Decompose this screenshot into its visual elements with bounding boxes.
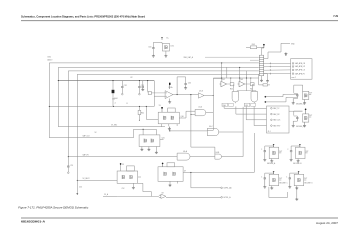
label C below x76 — [79, 187, 82, 189]
label R47 — [250, 88, 253, 90]
svg-text:SECURE_5V: SECURE_5V — [296, 104, 305, 106]
filter block Q — [292, 109, 313, 129]
IC3 pin stub2 — [177, 181, 179, 183]
svg-text:Q43: Q43 — [240, 79, 243, 81]
svg-text:OUT: OUT — [309, 93, 312, 95]
svg-text:5V_SEC2: 5V_SEC2 — [83, 178, 90, 180]
wire IC2 step join — [138, 183, 152, 196]
junction d4 — [239, 67, 240, 79]
IC3 top box — [167, 163, 175, 167]
resistor R40 series — [148, 81, 152, 95]
label J1 — [291, 77, 296, 79]
svg-text:C32: C32 — [124, 85, 127, 87]
IC1 bottom pin1 — [161, 124, 163, 127]
filter block D — [286, 171, 313, 189]
label B+ top — [167, 38, 169, 40]
transistor Q9 in IC3 — [164, 172, 167, 176]
label top right — [291, 43, 295, 45]
figure caption — [18, 206, 89, 210]
filter block C — [261, 171, 288, 189]
wire R48 — [259, 84, 270, 86]
ground below U1 — [168, 101, 171, 104]
AND gate G2 — [207, 128, 218, 135]
AND gate G4 — [195, 109, 206, 115]
wire bus L5 — [77, 74, 258, 180]
filter block A — [261, 144, 282, 165]
ground below U0 — [164, 55, 167, 58]
terminal circle UNFIL — [221, 187, 223, 189]
filter block Q feed — [289, 110, 303, 112]
resistor R41 hanging — [138, 106, 141, 120]
svg-text:U3 1: U3 1 — [170, 45, 174, 47]
label y180 — [83, 178, 90, 180]
wire Q5 to R46 — [227, 83, 231, 85]
svg-text:C52: C52 — [122, 188, 125, 190]
svg-text:OUT: OUT — [279, 151, 282, 153]
label J2 — [268, 131, 271, 133]
ground IC1 — [168, 127, 171, 130]
header page number — [333, 15, 338, 18]
svg-text:C30: C30 — [148, 46, 151, 48]
transistor Q8 in IC2 — [130, 175, 133, 179]
svg-text:vv: vv — [115, 103, 117, 105]
label C33 — [141, 85, 144, 87]
terminal dot R41 — [139, 120, 140, 121]
junction R40 — [147, 80, 148, 81]
label U8 — [162, 193, 164, 195]
wire U1-B out — [204, 95, 213, 97]
transistor Q6 — [238, 81, 245, 87]
wire Q6 to R47 — [245, 83, 251, 85]
connector J2 pins — [271, 107, 282, 127]
resistor R47 — [250, 83, 254, 86]
svg-text:Q42: Q42 — [222, 79, 225, 81]
capacitor C51 left — [67, 157, 69, 172]
junction U1 out — [177, 94, 178, 95]
filter block P — [292, 85, 313, 105]
wire Q5 junction drop — [229, 78, 232, 83]
terminal circle HPFIL — [221, 197, 223, 199]
label bus L1 mid — [184, 56, 194, 59]
junction x146 — [146, 106, 147, 107]
IC3 box — [158, 167, 183, 182]
junction C31 — [112, 80, 113, 81]
svg-text:UNFIL_AD: UNFIL_AD — [224, 187, 233, 190]
label box U5B — [244, 103, 255, 107]
wire drop d4 — [239, 67, 241, 81]
wire IC3 top stub — [162, 163, 164, 166]
svg-text:OUT: OUT — [304, 178, 307, 180]
wire bus L1 — [205, 56, 259, 58]
wire net y196 stub — [103, 195, 117, 197]
net arrow bottom x76 — [76, 180, 78, 195]
svg-text:R45: R45 — [252, 44, 255, 46]
label U2 on y80 — [130, 77, 132, 79]
label IC3 out — [184, 170, 186, 172]
wire drop d2 — [226, 67, 228, 78]
label Q5 — [222, 79, 225, 81]
IC4 box — [139, 135, 160, 147]
wire net y156 — [68, 156, 177, 158]
IC2 box — [117, 171, 138, 183]
NAND gate GA — [232, 88, 239, 103]
label HPFIL_A — [224, 196, 232, 199]
wire y130 to gate2 — [170, 130, 208, 132]
svg-text:SECURE_C: SECURE_C — [279, 182, 288, 184]
filter block P feeds — [286, 94, 298, 97]
T1 top stub — [262, 48, 264, 55]
T1 bottom right drop — [264, 74, 268, 80]
label tick y106 b — [127, 103, 129, 105]
terminal circle C51 — [68, 172, 70, 174]
wire bus L2 — [49, 63, 258, 138]
wire IC1 to G4 — [186, 111, 195, 118]
capacitor C32 hanging — [121, 81, 123, 94]
svg-text:August 24, 2007: August 24, 2007 — [316, 221, 339, 225]
label C32 — [124, 85, 127, 87]
svg-text:R46: R46 — [230, 88, 233, 90]
label IC4 out — [162, 138, 165, 140]
label UNFIL_AD — [224, 187, 233, 190]
ground below C30 — [152, 55, 155, 58]
ground above J1 — [284, 53, 287, 57]
transistor Q4 in IC4 — [151, 139, 154, 143]
label net L bottom — [104, 193, 109, 196]
label on L2 route2 — [95, 132, 98, 134]
wire bus L4 — [68, 71, 258, 157]
wire into U8 — [117, 195, 159, 197]
wire U1 vcc stem — [169, 99, 171, 101]
wire IC3 out to J2 — [187, 133, 255, 172]
transistor Q3 in IC4 — [144, 139, 147, 143]
svg-text:OUT: OUT — [279, 178, 282, 180]
terminal circle C32 — [122, 93, 124, 95]
IC1 box — [158, 112, 179, 124]
T1 bottom stub gnd — [260, 76, 263, 82]
power flag IC1 — [161, 107, 163, 112]
U0 box — [162, 43, 169, 51]
filter block B — [287, 144, 308, 165]
transistor Q7 in IC2 — [122, 175, 125, 179]
svg-text:HPFIL_A: HPFIL_A — [224, 196, 232, 199]
junction C33 — [139, 80, 140, 81]
wire drop d1 — [221, 63, 223, 81]
wire T1 right up — [264, 43, 290, 58]
label y126 — [111, 125, 118, 127]
op-amp U1-B — [198, 93, 204, 98]
junction d1 — [221, 62, 222, 78]
svg-text:U2: U2 — [130, 77, 132, 79]
label C51 — [70, 165, 73, 167]
label tick y106 a — [115, 103, 117, 105]
svg-text:SECURE_D: SECURE_D — [304, 182, 313, 184]
wire gnd stem y130 — [169, 126, 171, 131]
wire IC1 out — [179, 117, 186, 119]
junction y106 left — [49, 106, 50, 107]
label above IC2 — [122, 164, 125, 166]
label on L2 route — [83, 135, 91, 138]
transistor Q1 in IC1 — [163, 116, 166, 120]
wires T1 to J1 with arrows — [264, 63, 291, 75]
resistor R45 — [246, 46, 264, 49]
label G2 — [209, 126, 214, 128]
label U1 above — [169, 86, 174, 89]
wire x190 vertical — [190, 94, 215, 154]
svg-text:Q41: Q41 — [162, 138, 165, 140]
junction R41 — [139, 106, 140, 107]
IC2 out dash — [138, 176, 141, 178]
footer date — [316, 221, 339, 225]
label R46 — [230, 88, 233, 90]
wire P2 right — [265, 97, 288, 102]
wire row4 feed — [254, 106, 266, 125]
ground filter D tail — [295, 187, 298, 201]
wire G2 out route — [219, 131, 243, 133]
power dot P1 — [265, 96, 267, 98]
wire bus L3 — [58, 67, 258, 126]
wire P1 right — [265, 94, 285, 96]
wire IC4 out dash — [160, 139, 164, 141]
ground T1 right — [266, 80, 269, 83]
wire R47 to GB — [253, 84, 255, 88]
svg-text:conn 2: conn 2 — [291, 77, 296, 79]
wire drop d5 — [246, 71, 248, 91]
wire row1 feed — [224, 106, 266, 108]
label IC1 top — [159, 105, 162, 107]
label C35 — [188, 83, 191, 85]
power flag VCC top — [161, 37, 163, 40]
wire row2 feed — [236, 106, 267, 114]
wire y196 long — [166, 196, 221, 198]
footer part number — [21, 219, 45, 223]
label y156 — [83, 154, 89, 157]
wire G1 out — [190, 156, 215, 158]
label G1 — [183, 150, 188, 153]
AND gate G3 — [215, 154, 222, 159]
svg-text:OUT: OUT — [305, 151, 308, 153]
IC1 bottom pin3 — [176, 124, 178, 126]
junction y187 — [190, 172, 191, 173]
wire drop d7 — [258, 74, 260, 85]
ground below C35 — [184, 87, 187, 90]
wire R46 to GA — [233, 84, 235, 88]
footer rule — [21, 217, 338, 219]
resistor R48 — [263, 84, 268, 86]
opamp U8 marks — [159, 195, 161, 197]
wire G3 out up — [222, 107, 244, 157]
wire drop into IC4 — [143, 129, 144, 135]
junction y130 — [169, 130, 170, 131]
svg-text:5V_SEC: 5V_SEC — [111, 125, 118, 127]
wire net y126 — [58, 126, 165, 128]
dark dot above IC3 — [162, 163, 164, 165]
wire x190 to G4 — [190, 114, 195, 115]
capacitor C30 — [152, 48, 154, 49]
capacitor C34 — [142, 81, 144, 88]
label U0 — [170, 45, 174, 47]
wire bend into opamp U1 — [154, 81, 165, 107]
svg-text:B+: B+ — [167, 38, 169, 40]
IC4 pin gnd1 — [140, 147, 143, 151]
T1 left stub extra — [250, 59, 259, 61]
net label top left — [48, 57, 54, 62]
label C30 — [148, 46, 151, 48]
IC1 top box — [168, 108, 176, 112]
ground below C34 — [141, 88, 144, 91]
transistor Q5 — [220, 81, 227, 87]
op-amp U8 — [161, 194, 166, 198]
wire y180 into IC2 — [77, 179, 117, 181]
junction U1B out x213 — [213, 95, 214, 96]
svg-text:C51: C51 — [70, 165, 73, 167]
transformer T1 — [259, 55, 263, 76]
svg-text:C50: C50 — [79, 187, 82, 189]
dark dot above IC2 — [120, 163, 122, 165]
svg-text:R44: R44 — [114, 98, 117, 100]
IC3 gnd pin — [169, 181, 172, 186]
svg-text:Schematics, Component Location: Schematics, Component Location Diagrams,… — [21, 14, 145, 18]
label box U5A — [222, 103, 233, 107]
wire L2 lower route — [49, 129, 156, 137]
label IC1 right — [181, 116, 184, 118]
label U1-B — [199, 91, 204, 93]
transistor Q inside U0 — [165, 45, 168, 49]
label R41 — [141, 113, 144, 115]
connector J1 box — [291, 59, 312, 79]
svg-text:SECURE_B: SECURE_B — [293, 163, 301, 165]
label G3 — [216, 152, 220, 154]
wire x146 drop to IC1 — [146, 106, 158, 119]
wire y187 to pad — [191, 172, 221, 187]
header title text — [21, 14, 145, 18]
wire row3 feed — [246, 106, 266, 119]
wire net y78 — [213, 77, 258, 79]
IC1 bottom pin2 to gnd — [168, 124, 170, 127]
transistor Q2 in IC1 — [171, 116, 174, 120]
junction y156 x68 — [68, 156, 69, 157]
IC2 gnd pin — [132, 183, 135, 189]
wire U1 out — [173, 94, 198, 96]
wire C31 tail to y106 — [112, 97, 114, 106]
svg-text:R41: R41 — [141, 113, 144, 115]
label R40a — [114, 98, 117, 100]
wire Q6 junction drop — [249, 78, 252, 83]
wire into IC2 vertical — [120, 164, 122, 172]
wire U1 feedback — [177, 77, 186, 95]
power dot P2 — [265, 101, 267, 103]
label R45 — [252, 44, 255, 46]
capacitor C31 polarized dark — [112, 81, 115, 98]
svg-text:C35: C35 — [188, 83, 191, 85]
transistor Q10 in IC3 — [173, 172, 176, 176]
svg-text:U4-B: U4-B — [216, 152, 220, 154]
filter C bottom wire — [269, 187, 288, 198]
IC3 out dash — [183, 171, 186, 173]
connector J2 box — [267, 106, 290, 133]
wire x213 vertical — [207, 78, 221, 130]
svg-text:U7: U7 — [184, 170, 186, 172]
svg-text:OUT: OUT — [309, 115, 312, 117]
NAND gate GB — [251, 88, 258, 103]
wire C30 to gnd — [152, 49, 154, 55]
svg-text:Figure 7-171. PMLF4035A Secur: Figure 7-171. PMLF4035A Secure DEMOD Sch… — [18, 206, 89, 210]
junction d5 — [246, 77, 247, 78]
label C31 — [112, 99, 115, 101]
capacitor C35 feedback — [184, 84, 186, 85]
power flag above U1 — [169, 83, 171, 89]
power dot R45 — [263, 44, 265, 48]
wire net y106 — [49, 105, 154, 107]
header rule — [21, 20, 338, 22]
wire U0 to gnd — [165, 51, 167, 55]
IC4 pin right drop — [155, 147, 158, 154]
wire G4 out — [206, 112, 214, 114]
connector J1 pins — [292, 62, 306, 75]
svg-text:7-29: 7-29 — [333, 15, 338, 18]
op-amp U1 — [165, 91, 173, 99]
svg-text:C33: C33 — [141, 85, 144, 87]
junction bus L3 x58 — [58, 80, 59, 81]
label G4 — [198, 106, 203, 108]
terminal circle C33 — [139, 93, 141, 95]
wire y90 link — [237, 90, 256, 92]
junction y180 — [77, 180, 78, 181]
label C IC2 — [122, 188, 125, 190]
svg-text:U8: U8 — [162, 193, 164, 195]
IC2 top box — [127, 166, 135, 171]
AND gate G1 — [177, 153, 190, 160]
opamp U1 input marks — [166, 93, 167, 96]
resistor R46 — [230, 83, 234, 86]
wire net y80 — [58, 80, 154, 82]
svg-text:6816533H01-A: 6816533H01-A — [21, 219, 45, 223]
wire C35 down — [185, 85, 187, 87]
label Q6 — [240, 79, 243, 81]
svg-text:J2-1: J2-1 — [268, 131, 271, 133]
wire R40 to opamp — [151, 92, 165, 94]
capacitor C33 hanging — [138, 81, 140, 94]
wire C30 stem — [153, 42, 162, 47]
svg-text:SECURE_3V: SECURE_3V — [296, 126, 305, 128]
junction y106 x113 — [113, 106, 114, 107]
IC4 pin gnd2 — [147, 147, 150, 151]
